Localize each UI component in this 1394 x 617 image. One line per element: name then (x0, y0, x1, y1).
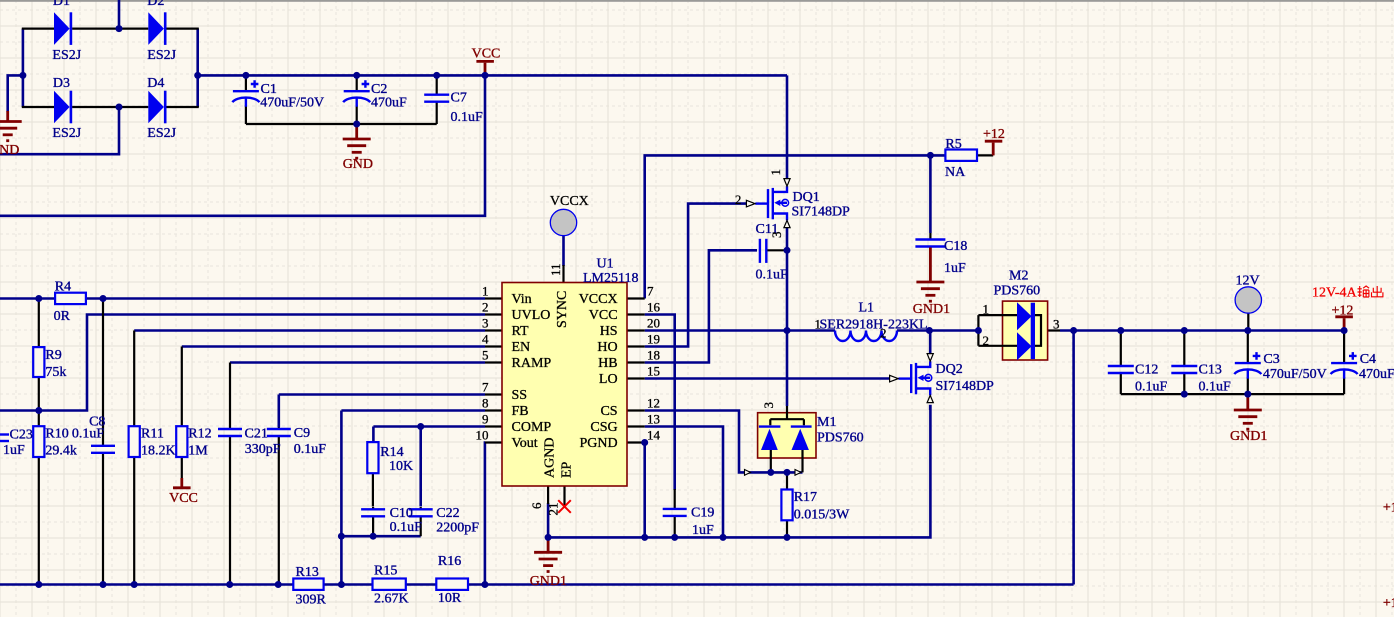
svg-text:0.1uF: 0.1uF (1135, 380, 1168, 395)
svg-text:VCC: VCC (169, 491, 198, 506)
svg-text:309R: 309R (296, 593, 327, 608)
svg-text:1M: 1M (188, 444, 208, 459)
svg-text:12V: 12V (1236, 274, 1260, 289)
svg-text:SS: SS (512, 388, 528, 403)
svg-text:21: 21 (546, 503, 561, 516)
svg-text:470uF: 470uF (371, 96, 407, 111)
svg-text:SYNC: SYNC (555, 291, 570, 328)
svg-text:1uF: 1uF (3, 443, 25, 458)
svg-text:75k: 75k (45, 365, 66, 380)
svg-text:3: 3 (1053, 317, 1060, 332)
svg-text:SER2918H-223KL: SER2918H-223KL (820, 318, 928, 333)
svg-text:C13: C13 (1199, 363, 1222, 378)
svg-text:PGND: PGND (579, 436, 617, 451)
svg-text:PDS760: PDS760 (994, 284, 1041, 299)
svg-text:ES2J: ES2J (147, 126, 176, 141)
svg-text:ES2J: ES2J (52, 126, 81, 141)
svg-text:LM25118: LM25118 (583, 271, 638, 286)
svg-text:C21: C21 (245, 427, 268, 442)
svg-text:SI7148DP: SI7148DP (936, 379, 995, 394)
svg-text:RT: RT (512, 324, 529, 339)
svg-text:3: 3 (769, 232, 784, 239)
svg-text:DQ1: DQ1 (793, 190, 820, 205)
svg-text:1: 1 (768, 169, 783, 176)
svg-text:VCCX: VCCX (579, 292, 618, 307)
svg-text:7: 7 (482, 380, 489, 395)
svg-text:HS: HS (600, 324, 618, 339)
svg-text:C12: C12 (1135, 363, 1158, 378)
svg-text:+12: +12 (1332, 304, 1354, 319)
svg-text:D2: D2 (147, 0, 164, 9)
svg-text:0R: 0R (54, 309, 71, 324)
svg-text:D1: D1 (53, 0, 70, 9)
svg-text:CS: CS (600, 404, 617, 419)
svg-text:SI7148DP: SI7148DP (792, 205, 851, 220)
svg-text:C4: C4 (1360, 352, 1376, 367)
svg-text:11: 11 (548, 263, 563, 276)
svg-text:GND: GND (343, 157, 373, 172)
svg-text:C18: C18 (944, 239, 967, 254)
svg-text:Vin: Vin (512, 292, 532, 307)
svg-text:ES2J: ES2J (52, 48, 81, 63)
svg-text:19: 19 (647, 332, 660, 347)
svg-text:0.1uF: 0.1uF (294, 442, 327, 457)
svg-text:R5: R5 (945, 137, 961, 152)
svg-text:0.1uF: 0.1uF (1199, 380, 1232, 395)
svg-text:GND1: GND1 (530, 574, 567, 589)
svg-text:HB: HB (598, 356, 617, 371)
svg-text:470uF: 470uF (1359, 367, 1394, 382)
svg-text:6: 6 (529, 502, 544, 509)
svg-text:AGND: AGND (543, 438, 558, 478)
svg-text:R10: R10 (45, 427, 68, 442)
svg-text:2: 2 (983, 333, 990, 348)
svg-text:+12: +12 (1383, 500, 1394, 515)
svg-text:0.1uF: 0.1uF (72, 427, 105, 442)
svg-text:VCC: VCC (589, 308, 618, 323)
svg-text:470uF/50V: 470uF/50V (1263, 367, 1327, 382)
svg-text:R9: R9 (45, 348, 61, 363)
svg-text:0.015/3W: 0.015/3W (794, 507, 850, 522)
svg-text:+12: +12 (1383, 596, 1394, 611)
svg-text:1: 1 (983, 302, 990, 317)
svg-text:C22: C22 (436, 506, 459, 521)
svg-text:29.4k: 29.4k (45, 444, 77, 459)
svg-text:4: 4 (482, 332, 489, 347)
svg-text:GND: GND (0, 143, 19, 158)
svg-text:FB: FB (512, 404, 529, 419)
svg-text:1uF: 1uF (944, 261, 966, 276)
svg-text:8: 8 (482, 396, 489, 411)
svg-text:3: 3 (761, 402, 776, 409)
svg-text:M1: M1 (817, 415, 836, 430)
svg-text:GND1: GND1 (1230, 429, 1267, 444)
svg-text:2: 2 (880, 326, 887, 341)
svg-text:R14: R14 (380, 445, 403, 460)
svg-text:U1: U1 (597, 257, 614, 272)
svg-text:1: 1 (482, 284, 489, 299)
svg-text:EP: EP (560, 461, 575, 478)
svg-text:HO: HO (597, 340, 617, 355)
svg-text:15: 15 (647, 364, 660, 379)
svg-text:18.2K: 18.2K (141, 444, 176, 459)
svg-text:D3: D3 (53, 76, 70, 91)
svg-text:GND1: GND1 (913, 302, 950, 317)
svg-text:10K: 10K (389, 459, 413, 474)
svg-text:NA: NA (945, 165, 966, 180)
svg-text:R16: R16 (438, 554, 461, 569)
svg-text:RAMP: RAMP (512, 356, 552, 371)
svg-text:470uF/50V: 470uF/50V (260, 96, 324, 111)
svg-text:R12: R12 (188, 427, 211, 442)
svg-text:20: 20 (647, 316, 660, 331)
svg-text:5: 5 (482, 348, 489, 363)
svg-text:0.1uF: 0.1uF (451, 110, 484, 125)
svg-text:C3: C3 (1263, 352, 1279, 367)
svg-text:C23: C23 (10, 428, 33, 443)
svg-text:VCCX: VCCX (550, 194, 589, 209)
svg-text:0.1uF: 0.1uF (756, 268, 789, 283)
svg-text:2.67K: 2.67K (374, 591, 409, 606)
svg-text:C10: C10 (390, 506, 413, 521)
svg-text:14: 14 (647, 428, 661, 443)
svg-text:18: 18 (647, 348, 660, 363)
svg-text:D4: D4 (147, 76, 164, 91)
svg-text:+12: +12 (983, 127, 1005, 142)
svg-text:M2: M2 (1009, 268, 1028, 283)
svg-text:R4: R4 (55, 280, 71, 295)
svg-text:COMP: COMP (512, 420, 552, 435)
svg-text:16: 16 (647, 300, 661, 315)
svg-text:1uF: 1uF (692, 523, 714, 538)
svg-text:C19: C19 (691, 506, 714, 521)
svg-text:VCC: VCC (472, 47, 501, 62)
svg-text:0.1uF: 0.1uF (390, 520, 423, 535)
svg-text:R17: R17 (794, 490, 817, 505)
svg-text:R11: R11 (141, 427, 164, 442)
svg-text:EN: EN (512, 340, 531, 355)
svg-text:330pF: 330pF (245, 442, 281, 457)
svg-text:3: 3 (482, 316, 489, 331)
svg-text:2: 2 (735, 192, 742, 207)
svg-text:9: 9 (482, 412, 489, 427)
svg-text:2: 2 (482, 300, 489, 315)
svg-text:ES2J: ES2J (147, 48, 176, 63)
svg-text:R13: R13 (296, 565, 319, 580)
svg-text:LO: LO (599, 372, 618, 387)
svg-text:DQ2: DQ2 (936, 362, 963, 377)
svg-text:UVLO: UVLO (512, 308, 551, 323)
svg-text:PDS760: PDS760 (817, 431, 864, 446)
svg-text:R15: R15 (374, 563, 397, 578)
svg-text:7: 7 (647, 284, 654, 299)
svg-text:L1: L1 (859, 301, 875, 316)
svg-text:12V-4A: 12V-4A (1312, 286, 1357, 301)
svg-text:CSG: CSG (590, 420, 617, 435)
svg-text:10: 10 (476, 428, 489, 443)
svg-text:C7: C7 (451, 90, 467, 105)
svg-text:C9: C9 (294, 426, 310, 441)
svg-text:13: 13 (647, 412, 660, 427)
svg-text:12: 12 (647, 396, 660, 411)
svg-text:2200pF: 2200pF (436, 520, 479, 535)
svg-text:10R: 10R (438, 591, 462, 606)
svg-text:Vout: Vout (512, 436, 538, 451)
